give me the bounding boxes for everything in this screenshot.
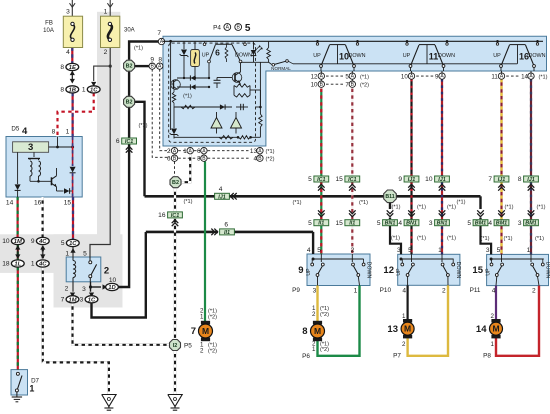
svg-text:9: 9 — [398, 176, 402, 183]
svg-text:4C: 4C — [38, 262, 47, 268]
svg-text:P8: P8 — [483, 352, 491, 359]
window switch 12 — [398, 254, 460, 285]
svg-text:6: 6 — [167, 156, 171, 163]
svg-text:10: 10 — [311, 82, 318, 89]
window switch 10 in master switch — [316, 40, 319, 43]
svg-text:2: 2 — [104, 49, 108, 56]
connector 5 BM1 — [477, 210, 484, 213]
svg-text:IC1: IC1 — [348, 177, 356, 183]
svg-text:DOWN: DOWN — [545, 262, 550, 279]
gray harness shading — [97, 12, 120, 235]
svg-text:11: 11 — [429, 52, 439, 62]
dashed link 1(A)-6(A) — [194, 150, 200, 152]
svg-text:10: 10 — [401, 74, 408, 81]
svg-text:IJ1: IJ1 — [498, 177, 506, 183]
svg-text:(*1): (*1) — [536, 205, 545, 211]
D5 output diode to pin15 — [57, 190, 64, 192]
svg-text:(*2): (*2) — [208, 348, 217, 354]
svg-text:(*1): (*1) — [480, 236, 489, 242]
svg-text:(*2): (*2) — [320, 312, 329, 318]
svg-text:(*1): (*1) — [539, 75, 548, 81]
svg-text:UP: UP — [493, 53, 501, 59]
switch 15 internals — [491, 258, 544, 260]
svg-text:NORMAL: NORMAL — [271, 66, 291, 71]
svg-text:7: 7 — [345, 82, 349, 89]
svg-text:1M: 1M — [68, 297, 76, 303]
window switch 15 — [487, 254, 549, 285]
wire battery feed to fuse FB — [71, 0, 73, 16]
wire 1B to D5 pin 1 red/blue — [71, 93, 73, 137]
svg-text:4C: 4C — [38, 239, 47, 245]
connector 15 IC1 — [345, 176, 360, 182]
wire switch11-A black/red col4 — [410, 79, 412, 176]
svg-text:2: 2 — [65, 286, 69, 293]
D5 internal wiring — [49, 146, 73, 148]
svg-text:3: 3 — [66, 9, 70, 16]
svg-text:3: 3 — [486, 247, 490, 254]
ground G1 — [102, 395, 116, 407]
D5 transistor pnp — [33, 152, 35, 157]
dashed link 2(A)-1(A) — [178, 150, 186, 152]
svg-text:II1: II1 — [318, 221, 324, 227]
relay contact — [89, 257, 91, 261]
svg-text:7: 7 — [61, 297, 65, 304]
relay coil — [72, 257, 74, 261]
wire 5(1C) to relay pin1 — [72, 247, 74, 257]
svg-text:8: 8 — [518, 176, 522, 183]
stacked resistors right — [234, 84, 250, 87]
zener diode — [183, 41, 185, 49]
wire relay pin3 to 10(1D) black — [90, 282, 92, 287]
svg-text:P5: P5 — [184, 343, 192, 350]
junction block assembly 4 (D5) — [6, 137, 82, 198]
svg-text:1B: 1B — [69, 88, 76, 94]
feed 1 drop to 5 BM1 — [479, 196, 481, 209]
svg-text:5: 5 — [83, 250, 87, 257]
svg-text:(*1): (*1) — [391, 236, 400, 242]
svg-text:UP: UP — [306, 268, 312, 276]
D7 ground — [16, 395, 18, 397]
wire switch10-A green/red col1 — [320, 89, 322, 177]
connector 4 IJ1 on feed 1 — [215, 193, 230, 199]
svg-text:10A: 10A — [43, 28, 54, 34]
svg-text:14: 14 — [521, 74, 528, 81]
svg-text:(*1): (*1) — [447, 236, 456, 242]
wire switch9 pin3 to motor 8 yellow — [316, 286, 318, 325]
wire lower splice B2 to horizontal feed 1 black — [135, 102, 145, 197]
splice I2 — [170, 340, 181, 351]
svg-text:(*1): (*1) — [208, 308, 217, 314]
svg-text:B11: B11 — [385, 194, 394, 200]
svg-text:3: 3 — [82, 286, 86, 293]
connector 15 II1 — [349, 210, 356, 213]
svg-text:DOWN: DOWN — [348, 53, 365, 59]
svg-text:1C: 1C — [69, 241, 77, 247]
svg-text:(*1): (*1) — [183, 94, 192, 100]
svg-text:2: 2 — [104, 266, 109, 277]
wire D5 pin15 to 5(1C) red/blue — [72, 197, 74, 239]
svg-text:1: 1 — [104, 9, 108, 16]
internal left rail — [170, 41, 172, 130]
splice B2-3 — [170, 177, 181, 188]
dashed line 9(B) column — [152, 69, 170, 157]
dashed link 6(B)-3(B) — [178, 157, 200, 159]
wire D5 pin16 to 9(4C) black/white — [41, 197, 43, 237]
svg-text:M: M — [202, 326, 209, 336]
svg-text:4: 4 — [492, 288, 496, 295]
horizontal feed wire 1 to B11 and BM1 — [145, 195, 384, 198]
svg-text:M: M — [492, 324, 499, 334]
svg-text:3: 3 — [197, 156, 201, 163]
svg-text:14: 14 — [476, 324, 487, 335]
wire splice B2-3 down black/white — [174, 188, 176, 339]
op-amp 1 — [211, 118, 222, 129]
svg-text:5: 5 — [245, 23, 251, 34]
window switch 11 in master switch — [406, 40, 409, 43]
svg-text:16: 16 — [158, 212, 166, 219]
wire 1C to D5 pin 8 red/white — [58, 93, 94, 137]
svg-text:(*1): (*1) — [138, 123, 147, 129]
relay block 3 inside D5 — [13, 142, 49, 153]
wire 7(1M) to splice I2 black/white — [73, 303, 170, 345]
dashed line 8(A) column — [160, 69, 170, 151]
splice B11 — [384, 190, 397, 203]
connector 7(1M) — [70, 293, 75, 298]
svg-text:1: 1 — [66, 129, 70, 136]
connector 3(1C) — [89, 293, 94, 298]
svg-text:P9: P9 — [292, 287, 300, 294]
splice B2 upper — [124, 60, 135, 71]
power window master switch 5 outline — [163, 36, 547, 146]
svg-text:(*1): (*1) — [391, 205, 400, 211]
svg-text:10: 10 — [2, 238, 10, 245]
svg-text:IJ1: IJ1 — [438, 177, 446, 183]
svg-text:1C: 1C — [88, 297, 96, 303]
svg-text:UP: UP — [396, 268, 402, 276]
connector 10 IJ1 — [435, 176, 450, 182]
connector 8(1B) — [66, 86, 79, 93]
svg-text:I2: I2 — [173, 343, 178, 349]
svg-text:14: 14 — [6, 200, 14, 207]
svg-text:18: 18 — [2, 261, 10, 268]
transistor T2 left — [171, 80, 181, 90]
svg-text:12: 12 — [311, 74, 318, 81]
svg-text:1: 1 — [402, 313, 406, 320]
dashed link 6(A)-13(A) — [208, 150, 249, 152]
connector 6 II1 on feed 2 — [220, 229, 235, 235]
svg-text:1D: 1D — [108, 285, 116, 291]
svg-text:6: 6 — [197, 148, 201, 155]
svg-text:6: 6 — [116, 138, 120, 145]
svg-text:2: 2 — [491, 313, 495, 320]
op-amp 2 — [231, 118, 242, 129]
svg-text:BN1: BN1 — [385, 221, 396, 227]
svg-text:8: 8 — [60, 64, 64, 71]
svg-text:16: 16 — [34, 200, 42, 207]
svg-text:5: 5 — [308, 176, 312, 183]
svg-text:M: M — [404, 324, 411, 334]
svg-text:5: 5 — [61, 240, 65, 247]
svg-text:DOWN: DOWN — [438, 53, 455, 59]
right rail resistor — [259, 127, 261, 137]
svg-text:8: 8 — [60, 87, 64, 94]
svg-text:5: 5 — [317, 247, 321, 254]
window switch drops inside control box — [208, 63, 210, 78]
link row under LED — [241, 61, 269, 63]
master switch internal bus — [163, 40, 543, 42]
svg-text:15: 15 — [335, 220, 343, 227]
connector 3 BM1 — [528, 210, 535, 213]
svg-text:1: 1 — [527, 247, 531, 254]
svg-text:5: 5 — [497, 247, 501, 254]
connector 10(1M) — [15, 245, 20, 250]
svg-text:3: 3 — [80, 297, 84, 304]
connector 5 II1 — [318, 210, 325, 213]
D5 twin coils — [30, 161, 32, 176]
svg-text:8: 8 — [52, 129, 56, 136]
svg-text:IJ1: IJ1 — [218, 194, 226, 200]
wire D5 pin14 to D7 switch red/green — [17, 197, 19, 237]
svg-text:1: 1 — [200, 314, 204, 321]
NORMAL lock switch — [269, 62, 272, 64]
svg-text:DOWN: DOWN — [528, 53, 545, 59]
svg-text:6: 6 — [224, 221, 228, 228]
connector 5 BN1 — [387, 210, 394, 213]
svg-text:4: 4 — [219, 186, 223, 193]
svg-text:IC1: IC1 — [317, 177, 325, 183]
svg-text:P6: P6 — [302, 353, 310, 360]
svg-text:1E: 1E — [69, 65, 77, 71]
svg-text:P10: P10 — [380, 287, 392, 294]
svg-text:7: 7 — [488, 176, 492, 183]
svg-text:(*2): (*2) — [360, 83, 369, 89]
svg-text:(*1): (*1) — [447, 205, 456, 211]
svg-text:15: 15 — [64, 200, 72, 207]
wire 1(A) to splice B2-3 black/white — [182, 154, 191, 182]
wire 10(1D) to splice B2 black — [119, 108, 130, 288]
svg-text:(*1): (*1) — [503, 236, 512, 242]
svg-text:2: 2 — [200, 347, 204, 354]
connector 5 IC1 — [314, 176, 329, 182]
connector 8 IJ1 — [524, 176, 539, 182]
common rail to switches — [288, 61, 293, 64]
wire switch15 pin4 to motor 14 violet — [495, 286, 497, 323]
svg-text:8: 8 — [302, 326, 307, 337]
wire switch12 pin4 to motor 13 black — [407, 285, 409, 322]
window switch 9 — [307, 254, 370, 286]
svg-text:BN1: BN1 — [437, 221, 448, 227]
svg-text:10: 10 — [109, 277, 117, 284]
svg-text:3: 3 — [518, 220, 522, 227]
svg-text:13: 13 — [387, 324, 398, 335]
svg-text:FB: FB — [45, 21, 53, 27]
svg-text:UP: UP — [202, 53, 210, 59]
wire motor 13 to switch12 pin2 yellow — [408, 285, 448, 356]
svg-text:P11: P11 — [470, 287, 481, 294]
splice B2 lower — [124, 96, 135, 107]
svg-text:(*1): (*1) — [134, 46, 143, 52]
svg-text:M: M — [314, 326, 321, 336]
svg-text:1: 1 — [65, 250, 69, 257]
svg-text:(*2): (*2) — [208, 315, 217, 321]
svg-text:5: 5 — [408, 247, 412, 254]
5 BN1 to switch 12 pin3 black — [390, 225, 401, 254]
svg-text:BM1: BM1 — [496, 221, 507, 227]
5 BM1 to switch 15 pin3 black — [481, 225, 492, 254]
svg-text:15: 15 — [335, 176, 343, 183]
svg-text:4: 4 — [488, 220, 492, 227]
svg-text:1: 1 — [312, 346, 316, 353]
svg-text:10: 10 — [425, 176, 433, 183]
svg-text:5: 5 — [345, 74, 349, 81]
svg-text:(*1): (*1) — [359, 200, 368, 206]
connector 7 IJ1 — [494, 176, 509, 182]
connector 16 IC1 — [168, 212, 183, 218]
wire relay pin2 to 7(1M) black — [72, 282, 74, 292]
wire master switch to motor 7 green — [204, 162, 206, 325]
connector 8(1E) — [70, 71, 75, 76]
svg-text:2: 2 — [532, 288, 536, 295]
wire splice B2 upper to 9(B) 8(A) black — [135, 65, 149, 67]
fuse FB 10A — [63, 16, 82, 47]
svg-text:P4: P4 — [213, 25, 221, 32]
connector 10(1D) — [103, 284, 108, 289]
svg-text:2: 2 — [351, 247, 355, 254]
svg-text:IC1: IC1 — [171, 213, 179, 219]
wire battery feed to breaker 30A — [109, 0, 111, 16]
wire switch11-B red/blue col5 — [441, 79, 443, 176]
svg-text:1M: 1M — [14, 239, 22, 245]
wire breaker 30A output black — [90, 48, 110, 258]
svg-text:DOWN: DOWN — [365, 262, 371, 279]
svg-text:B2: B2 — [126, 64, 133, 70]
svg-text:5: 5 — [308, 220, 312, 227]
wire 3(1C) to horizontal feed 2 black — [92, 232, 146, 318]
D5 diode to pin14 — [17, 152, 19, 184]
svg-text:1C: 1C — [90, 88, 98, 94]
svg-text:(*1): (*1) — [417, 236, 426, 242]
svg-text:7: 7 — [191, 326, 196, 337]
svg-text:2: 2 — [167, 148, 171, 155]
svg-text:UP: UP — [403, 53, 411, 59]
window switch 16 in master switch — [496, 40, 499, 43]
motor 13 — [403, 319, 412, 323]
svg-text:2: 2 — [312, 311, 316, 318]
D5 transistor npn — [51, 177, 53, 185]
svg-text:4: 4 — [66, 49, 70, 56]
svg-text:BM1: BM1 — [475, 221, 486, 227]
svg-text:1: 1 — [491, 341, 495, 348]
bottom resistors — [174, 136, 239, 138]
wire fuse FB to connector 1E red/blue — [71, 48, 73, 64]
svg-text:30A: 30A — [124, 28, 135, 34]
wire splice B2 upper to master switch pin7 black — [129, 42, 159, 60]
wire splice B2 to splice B2 upper black — [128, 72, 130, 96]
svg-text:5: 5 — [377, 220, 381, 227]
svg-text:B2: B2 — [126, 100, 133, 106]
svg-text:II1: II1 — [349, 221, 355, 227]
dashed control unit box 6 — [169, 43, 256, 142]
svg-text:UP: UP — [313, 53, 321, 59]
svg-text:2: 2 — [402, 341, 406, 348]
svg-text:3: 3 — [28, 142, 33, 153]
svg-text:1: 1 — [354, 288, 358, 295]
svg-text:IC1: IC1 — [125, 139, 133, 145]
ground G2 — [168, 395, 182, 407]
switch 9 internals — [313, 258, 364, 260]
svg-text:(*2): (*2) — [266, 157, 275, 163]
switch 1 (D7) — [11, 370, 28, 395]
svg-text:5: 5 — [467, 220, 471, 227]
svg-text:UP: UP — [485, 268, 491, 276]
B11 drop to 5 BN1 — [389, 203, 391, 209]
wire motor 8 to switch9 pin1 green — [318, 286, 360, 356]
diodes into left branch — [177, 77, 209, 79]
svg-text:(*1): (*1) — [417, 205, 426, 211]
horizontal feed wire 2 through 6 II1 to switch 9 pin4 — [146, 231, 218, 234]
svg-text:2: 2 — [442, 288, 446, 295]
svg-text:B2: B2 — [172, 180, 179, 186]
svg-text:7: 7 — [157, 30, 161, 37]
svg-text:IJ1: IJ1 — [408, 177, 416, 183]
svg-text:P7: P7 — [393, 352, 401, 359]
svg-text:3: 3 — [397, 247, 401, 254]
svg-text:(*2): (*2) — [320, 347, 329, 353]
wire switch16-A maroon/yellow col7 — [500, 79, 502, 176]
dashed 6(B) to splice B2-3 — [174, 162, 176, 177]
svg-text:1: 1 — [31, 261, 35, 268]
svg-text:(*1): (*1) — [320, 306, 329, 312]
wire splice I2 to ground G2 black/white — [174, 351, 176, 395]
zener bottom-left — [173, 107, 175, 128]
connector 6 IC1 on B2 line — [122, 138, 137, 144]
connector 5(1C) — [70, 248, 75, 253]
relay 2 — [66, 257, 101, 282]
svg-text:12: 12 — [383, 265, 394, 276]
svg-text:4: 4 — [22, 126, 28, 137]
connector 4 BM1 — [498, 210, 505, 213]
svg-text:(*1): (*1) — [504, 205, 513, 211]
svg-text:4: 4 — [307, 247, 311, 254]
D5 diode on pin1 line — [72, 137, 74, 167]
svg-text:9: 9 — [298, 265, 303, 276]
svg-text:1L: 1L — [14, 262, 21, 268]
svg-text:BM1: BM1 — [525, 221, 536, 227]
svg-text:1: 1 — [29, 384, 34, 394]
wire 1(4C) to ground G1 black/white — [43, 267, 109, 394]
connector 3 BN1 — [439, 210, 446, 213]
svg-text:4: 4 — [398, 220, 402, 227]
PTC yellow element — [194, 41, 196, 49]
wire switch16-B maroon/blue col8 — [530, 79, 532, 176]
motor 7 — [201, 321, 210, 325]
svg-text:15: 15 — [472, 265, 483, 276]
connector 9 IJ1 — [404, 176, 419, 182]
circuit breaker 30A — [101, 16, 120, 47]
wire relay pin3 branch to 3(1C) — [90, 287, 92, 292]
svg-text:BN1: BN1 — [406, 221, 417, 227]
svg-text:(*1): (*1) — [360, 75, 369, 81]
dashed link 3(B)-4(B) — [208, 157, 251, 159]
connector 1(1C) — [91, 82, 96, 87]
svg-text:(*1): (*1) — [183, 199, 192, 205]
capacitor under T1 base line — [217, 77, 232, 79]
middle row: resistor diode capacitor — [174, 106, 213, 108]
svg-text:(*1): (*1) — [535, 236, 544, 242]
resistor below T2 — [173, 90, 175, 93]
svg-text:1: 1 — [438, 247, 442, 254]
motor 14 — [491, 319, 500, 323]
